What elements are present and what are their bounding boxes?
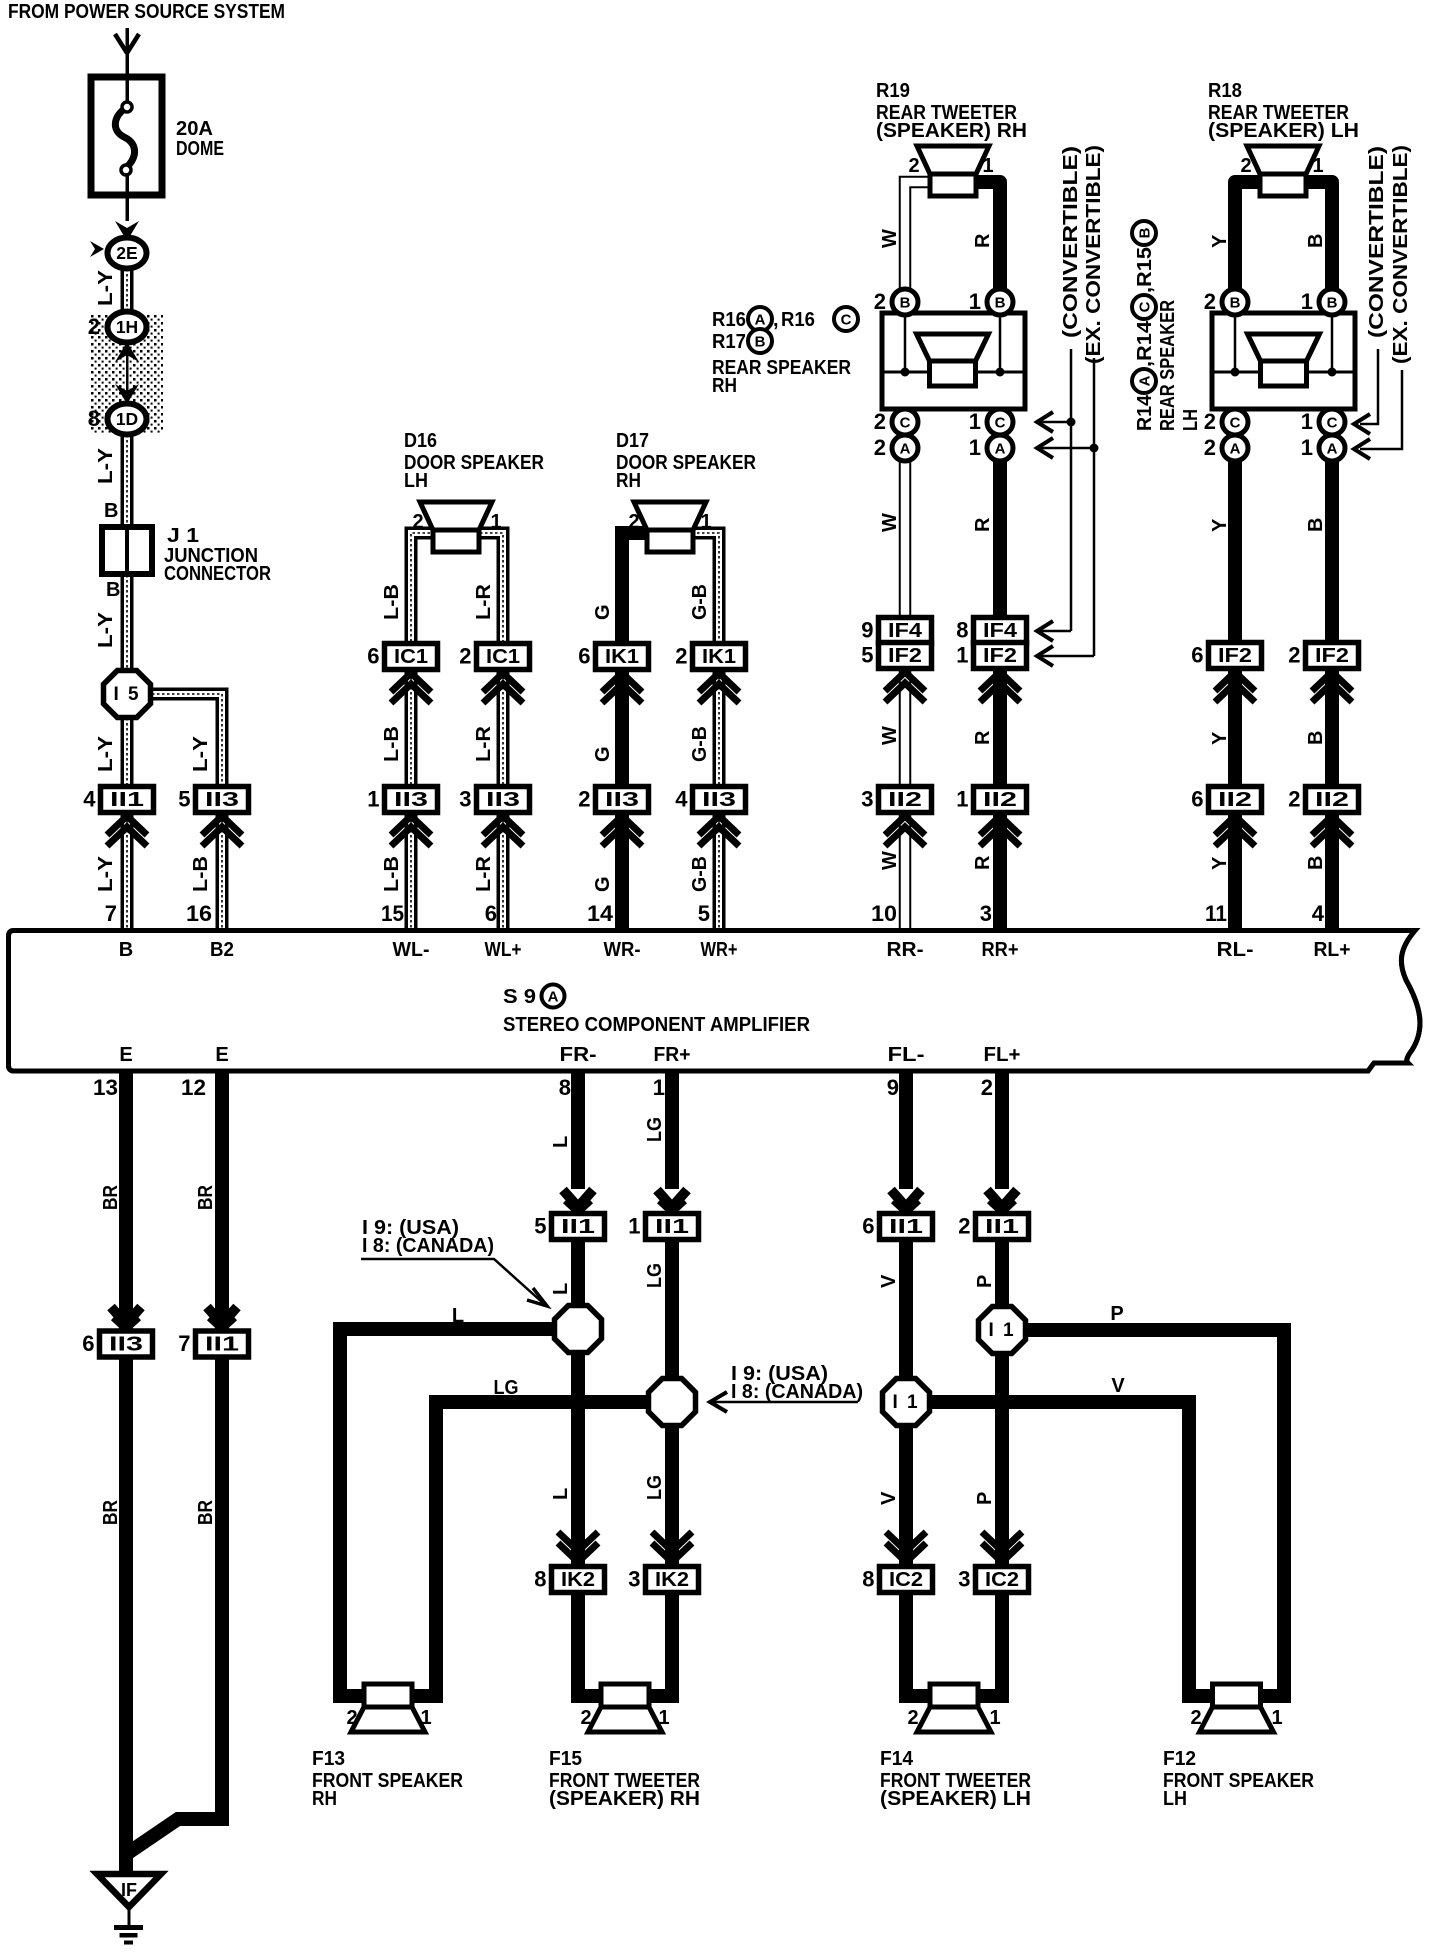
svg-text:G-B: G-B — [689, 584, 711, 620]
svg-text:CONNECTOR: CONNECTOR — [164, 563, 271, 585]
svg-text:IF2: IF2 — [888, 645, 922, 667]
svg-text:B2: B2 — [210, 939, 234, 961]
svg-text:6: 6 — [1191, 643, 1203, 668]
svg-text:1: 1 — [989, 1707, 1000, 1729]
svg-text:2: 2 — [1288, 787, 1300, 812]
svg-text:II1: II1 — [889, 1216, 923, 1238]
svg-text:P: P — [974, 1492, 996, 1505]
svg-text:I 8: (CANADA): I 8: (CANADA) — [362, 1235, 494, 1257]
svg-text:B: B — [1305, 518, 1327, 532]
svg-text:E: E — [215, 1044, 228, 1066]
svg-text:L-B: L-B — [381, 856, 403, 892]
svg-text:LG: LG — [494, 1377, 519, 1399]
svg-text:L-Y: L-Y — [95, 447, 117, 484]
svg-text:1: 1 — [628, 1214, 640, 1239]
svg-text:B: B — [1137, 227, 1154, 238]
svg-text:9: 9 — [861, 618, 873, 643]
svg-text:C: C — [900, 415, 911, 432]
svg-text:V: V — [878, 1274, 900, 1288]
svg-text:R18: R18 — [1208, 80, 1242, 102]
svg-text:1: 1 — [653, 1075, 665, 1100]
svg-text:P: P — [974, 1275, 996, 1288]
svg-text:IK2: IK2 — [561, 1569, 595, 1591]
svg-text:1H: 1H — [116, 317, 138, 337]
svg-text:1: 1 — [1301, 289, 1313, 314]
svg-text:G-B: G-B — [689, 726, 711, 762]
svg-text:C: C — [1230, 415, 1241, 432]
svg-text:RL+: RL+ — [1314, 939, 1351, 961]
svg-text:L-Y: L-Y — [95, 855, 117, 892]
svg-text:B: B — [995, 295, 1006, 312]
svg-text:A: A — [900, 441, 911, 458]
svg-text:A: A — [755, 312, 766, 329]
svg-text:RH: RH — [712, 375, 737, 397]
svg-text:3: 3 — [628, 1567, 640, 1592]
svg-text:20A: 20A — [176, 118, 213, 140]
svg-text:6: 6 — [578, 644, 590, 669]
svg-text:STEREO COMPONENT AMPLIFIER: STEREO COMPONENT AMPLIFIER — [503, 1014, 811, 1036]
svg-text:5: 5 — [861, 643, 873, 668]
svg-text:IF4: IF4 — [888, 620, 923, 642]
svg-text:P: P — [1110, 1303, 1123, 1325]
svg-text:BR: BR — [100, 1500, 122, 1525]
svg-text:3: 3 — [980, 901, 992, 926]
svg-text:G: G — [592, 604, 614, 620]
svg-text:1: 1 — [969, 289, 981, 314]
svg-text:R: R — [972, 233, 994, 248]
svg-text:1: 1 — [658, 1707, 669, 1729]
svg-text:L-B: L-B — [190, 856, 212, 892]
svg-text:WL+: WL+ — [485, 939, 522, 961]
svg-text:F12: F12 — [1163, 1748, 1196, 1770]
svg-text:2: 2 — [412, 511, 423, 533]
svg-text:II1: II1 — [985, 1216, 1019, 1238]
svg-text:B: B — [104, 500, 118, 522]
svg-text:9: 9 — [887, 1075, 899, 1100]
svg-text:F13: F13 — [312, 1748, 345, 1770]
svg-text:IK1: IK1 — [702, 646, 736, 668]
svg-text:IF4: IF4 — [983, 620, 1018, 642]
svg-text:B: B — [755, 334, 766, 351]
svg-text:Y: Y — [1209, 856, 1231, 870]
svg-text:I 1: I 1 — [892, 1392, 919, 1413]
svg-text:L-R: L-R — [473, 583, 495, 620]
svg-text:1: 1 — [956, 787, 968, 812]
svg-text:II3: II3 — [394, 789, 428, 811]
svg-text:,: , — [773, 309, 779, 331]
svg-text:II3: II3 — [486, 789, 520, 811]
svg-text:6: 6 — [485, 901, 497, 926]
svg-text:6: 6 — [1191, 787, 1203, 812]
svg-text:II2: II2 — [1218, 789, 1252, 811]
svg-text:L-Y: L-Y — [190, 735, 212, 772]
svg-text:2: 2 — [874, 435, 886, 460]
svg-text:BR: BR — [100, 1185, 122, 1210]
svg-text:RR-: RR- — [887, 939, 924, 961]
svg-text:2: 2 — [874, 289, 886, 314]
svg-text:B: B — [900, 295, 911, 312]
svg-text:C: C — [1327, 415, 1338, 432]
svg-text:6: 6 — [862, 1214, 874, 1239]
svg-text:RL-: RL- — [1217, 939, 1254, 961]
svg-text:REAR SPEAKER: REAR SPEAKER — [1157, 300, 1179, 431]
svg-text:LH: LH — [1163, 1788, 1187, 1810]
svg-text:W: W — [879, 851, 901, 870]
svg-text:1: 1 — [367, 787, 379, 812]
svg-text:D17: D17 — [616, 430, 649, 452]
svg-text:Y: Y — [1209, 731, 1231, 745]
svg-text:A: A — [1230, 441, 1241, 458]
svg-text:(SPEAKER) LH: (SPEAKER) LH — [880, 1788, 1031, 1810]
svg-text:Y: Y — [1209, 518, 1231, 532]
svg-text:LG: LG — [644, 1117, 666, 1142]
svg-text:14: 14 — [587, 901, 614, 926]
svg-text:2: 2 — [1204, 435, 1216, 460]
svg-text:B: B — [1305, 856, 1327, 870]
svg-text:FR+: FR+ — [654, 1044, 691, 1066]
svg-text:II1: II1 — [561, 1216, 595, 1238]
svg-text:II2: II2 — [983, 789, 1017, 811]
svg-text:2: 2 — [907, 1707, 918, 1729]
svg-text:B: B — [1305, 731, 1327, 745]
svg-text:D16: D16 — [404, 430, 437, 452]
svg-text:3: 3 — [861, 787, 873, 812]
svg-text:L-B: L-B — [381, 584, 403, 620]
svg-text:S 9: S 9 — [503, 986, 536, 1008]
svg-text:2: 2 — [580, 1707, 591, 1729]
svg-text:I 5: I 5 — [113, 684, 140, 705]
svg-text:,R15: ,R15 — [1134, 247, 1156, 293]
svg-text:L-B: L-B — [381, 726, 403, 762]
svg-text:8: 8 — [559, 1075, 571, 1100]
svg-text:L: L — [550, 1283, 572, 1295]
svg-text:1: 1 — [956, 643, 968, 668]
svg-text:5: 5 — [534, 1214, 546, 1239]
svg-text:8: 8 — [956, 618, 968, 643]
svg-text:1: 1 — [969, 409, 981, 434]
svg-text:W: W — [879, 513, 901, 532]
svg-text:2: 2 — [958, 1214, 970, 1239]
svg-text:2: 2 — [1204, 289, 1216, 314]
svg-text:G-B: G-B — [689, 856, 711, 892]
svg-text:1: 1 — [969, 435, 981, 460]
svg-text:L: L — [550, 1488, 572, 1500]
svg-text:6: 6 — [367, 644, 379, 669]
svg-text:2: 2 — [1240, 155, 1251, 177]
svg-text:II3: II3 — [205, 789, 239, 811]
svg-text:G: G — [592, 746, 614, 762]
svg-text:2: 2 — [675, 644, 687, 669]
svg-text:2: 2 — [578, 787, 590, 812]
svg-text:(SPEAKER) RH: (SPEAKER) RH — [549, 1788, 700, 1810]
svg-text:,R14: ,R14 — [1134, 320, 1156, 367]
svg-text:2: 2 — [1190, 1707, 1201, 1729]
svg-text:RH: RH — [312, 1788, 337, 1810]
svg-text:R16: R16 — [712, 309, 746, 331]
svg-text:II2: II2 — [888, 789, 922, 811]
svg-text:IC1: IC1 — [486, 646, 520, 668]
svg-text:LG: LG — [644, 1263, 666, 1288]
svg-text:2: 2 — [628, 511, 639, 533]
svg-text:WL-: WL- — [393, 939, 430, 961]
svg-text:L-Y: L-Y — [95, 735, 117, 772]
svg-text:LH: LH — [404, 470, 428, 492]
svg-text:2: 2 — [1288, 643, 1300, 668]
svg-text:(CONVERTIBLE): (CONVERTIBLE) — [1060, 146, 1082, 338]
svg-text:IK1: IK1 — [605, 646, 639, 668]
svg-text:LG: LG — [644, 1475, 666, 1500]
svg-text:8: 8 — [862, 1567, 874, 1592]
svg-text:13: 13 — [93, 1075, 118, 1100]
svg-text:J 1: J 1 — [167, 525, 199, 547]
svg-text:B: B — [1230, 295, 1241, 312]
svg-text:2: 2 — [346, 1707, 357, 1729]
svg-text:6: 6 — [82, 1331, 94, 1356]
svg-text:2: 2 — [88, 314, 100, 339]
svg-text:11: 11 — [1205, 901, 1227, 926]
svg-text:L-R: L-R — [473, 855, 495, 892]
svg-text:FL+: FL+ — [984, 1044, 1021, 1066]
svg-text:F15: F15 — [549, 1748, 582, 1770]
svg-text:A: A — [995, 441, 1006, 458]
svg-text:4: 4 — [83, 787, 96, 812]
svg-text:1: 1 — [700, 511, 711, 533]
svg-text:7: 7 — [105, 901, 117, 926]
svg-text:II3: II3 — [702, 789, 736, 811]
svg-text:Y: Y — [1209, 234, 1231, 248]
svg-text:C: C — [841, 312, 852, 329]
svg-text:4: 4 — [675, 787, 688, 812]
svg-text:II3: II3 — [109, 1334, 143, 1356]
svg-text:(SPEAKER) RH: (SPEAKER) RH — [876, 120, 1027, 142]
svg-text:A: A — [548, 989, 559, 1006]
svg-text:1: 1 — [1271, 1707, 1282, 1729]
svg-text:IC2: IC2 — [889, 1569, 923, 1591]
svg-text:2: 2 — [874, 409, 886, 434]
svg-text:IK2: IK2 — [655, 1569, 689, 1591]
svg-text:5: 5 — [698, 901, 710, 926]
svg-text:FR-: FR- — [560, 1044, 597, 1066]
svg-text:2E: 2E — [116, 243, 137, 263]
svg-text:RR+: RR+ — [982, 939, 1019, 961]
svg-text:II1: II1 — [110, 789, 144, 811]
svg-text:15: 15 — [381, 901, 404, 926]
svg-text:G: G — [592, 876, 614, 892]
svg-text:L-R: L-R — [473, 725, 495, 762]
svg-text:1: 1 — [1301, 409, 1313, 434]
svg-text:IC1: IC1 — [394, 646, 428, 668]
svg-text:II2: II2 — [1315, 789, 1349, 811]
svg-text:1: 1 — [982, 155, 993, 177]
svg-text:L-Y: L-Y — [95, 269, 117, 306]
svg-text:V: V — [878, 1491, 900, 1505]
svg-text:R16: R16 — [781, 309, 815, 331]
svg-text:W: W — [879, 229, 901, 248]
svg-text:2: 2 — [459, 644, 471, 669]
svg-text:RH: RH — [616, 470, 641, 492]
svg-text:I 1: I 1 — [988, 1320, 1015, 1341]
svg-text:IC2: IC2 — [985, 1569, 1019, 1591]
svg-text:WR-: WR- — [604, 939, 641, 961]
svg-text:1: 1 — [490, 511, 501, 533]
svg-text:(EX. CONVERTIBLE): (EX. CONVERTIBLE) — [1390, 145, 1412, 364]
svg-text:R17: R17 — [712, 331, 746, 353]
svg-text:IF2: IF2 — [983, 645, 1017, 667]
svg-text:5: 5 — [178, 787, 190, 812]
svg-text:IF: IF — [121, 1880, 137, 1900]
svg-text:II1: II1 — [655, 1216, 689, 1238]
svg-text:2: 2 — [908, 155, 919, 177]
svg-text:R14: R14 — [1134, 394, 1156, 431]
svg-text:L: L — [550, 1136, 572, 1148]
svg-text:B: B — [106, 579, 120, 601]
svg-text:II3: II3 — [605, 789, 639, 811]
svg-text:12: 12 — [181, 1075, 206, 1100]
svg-text:L-Y: L-Y — [95, 611, 117, 648]
svg-text:2: 2 — [1204, 409, 1216, 434]
svg-text:3: 3 — [958, 1567, 970, 1592]
svg-text:L: L — [452, 1305, 464, 1327]
svg-text:(SPEAKER) LH: (SPEAKER) LH — [1208, 120, 1359, 142]
svg-text:I 8: (CANADA): I 8: (CANADA) — [731, 1381, 863, 1403]
svg-text:16: 16 — [186, 901, 212, 926]
svg-text:A: A — [1137, 375, 1154, 386]
svg-text:1: 1 — [1312, 155, 1323, 177]
svg-text:C: C — [1137, 301, 1154, 312]
svg-text:R19: R19 — [876, 80, 910, 102]
svg-text:E: E — [119, 1044, 132, 1066]
svg-text:V: V — [1111, 1375, 1125, 1397]
svg-text:2: 2 — [981, 1075, 993, 1100]
svg-text:R: R — [972, 517, 994, 532]
svg-text:R: R — [972, 730, 994, 745]
svg-text:4: 4 — [1312, 901, 1325, 926]
svg-text:1: 1 — [420, 1707, 431, 1729]
svg-text:R: R — [972, 855, 994, 870]
svg-text:FL-: FL- — [888, 1044, 925, 1066]
svg-text:B: B — [1305, 234, 1327, 248]
svg-text:10: 10 — [871, 901, 897, 926]
svg-text:7: 7 — [178, 1331, 190, 1356]
svg-text:BR: BR — [195, 1185, 217, 1210]
svg-text:(EX. CONVERTIBLE): (EX. CONVERTIBLE) — [1083, 145, 1105, 364]
svg-text:FROM POWER SOURCE SYSTEM: FROM POWER SOURCE SYSTEM — [8, 1, 285, 23]
svg-text:A: A — [1327, 441, 1338, 458]
svg-text:(CONVERTIBLE): (CONVERTIBLE) — [1366, 146, 1388, 338]
svg-text:DOME: DOME — [176, 138, 224, 160]
svg-text:F14: F14 — [880, 1748, 914, 1770]
svg-text:8: 8 — [534, 1567, 546, 1592]
svg-text:IF2: IF2 — [1315, 645, 1349, 667]
svg-text:WR+: WR+ — [701, 939, 738, 961]
svg-text:LH: LH — [1180, 409, 1202, 431]
svg-text:IF2: IF2 — [1218, 645, 1252, 667]
svg-text:W: W — [879, 726, 901, 745]
svg-text:1: 1 — [1301, 435, 1313, 460]
svg-text:II1: II1 — [205, 1334, 239, 1356]
svg-text:1D: 1D — [116, 409, 138, 429]
svg-text:C: C — [995, 415, 1006, 432]
svg-text:BR: BR — [195, 1500, 217, 1525]
svg-text:3: 3 — [459, 787, 471, 812]
svg-text:B: B — [119, 939, 133, 961]
svg-text:B: B — [1327, 295, 1338, 312]
svg-text:8: 8 — [88, 406, 100, 431]
